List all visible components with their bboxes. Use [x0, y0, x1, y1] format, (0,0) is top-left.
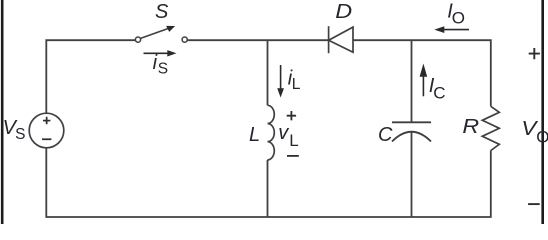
svg-text:S: S	[15, 126, 25, 143]
svg-text:S: S	[158, 61, 168, 78]
svg-text:C: C	[378, 124, 393, 146]
svg-text:S: S	[155, 1, 169, 23]
svg-text:O: O	[452, 8, 465, 27]
svg-text:v: v	[278, 122, 289, 144]
svg-text:L: L	[292, 76, 301, 93]
svg-text:O: O	[536, 128, 548, 147]
svg-text:D: D	[335, 0, 352, 23]
svg-text:R: R	[462, 114, 479, 137]
svg-text:L: L	[249, 124, 260, 146]
svg-text:L: L	[289, 131, 298, 150]
svg-text:C: C	[433, 84, 445, 103]
